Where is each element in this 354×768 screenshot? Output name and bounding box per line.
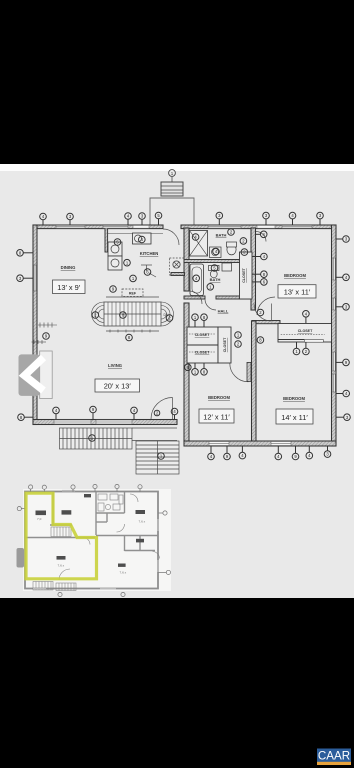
mini plan background bbox=[23, 489, 171, 591]
svg-text:BEDROOM: BEDROOM bbox=[283, 396, 305, 401]
window left wall (dining) bbox=[34, 265, 37, 291]
svg-text:13′ x 11′: 13′ x 11′ bbox=[284, 288, 311, 297]
outer wall bottom (bedrooms) bbox=[184, 441, 336, 446]
dimension box 20x13 bbox=[95, 379, 140, 392]
mini plan highlight outline bbox=[26, 493, 97, 579]
dimension box 12x11 bbox=[199, 409, 234, 423]
outer wall top-right block bbox=[181, 225, 336, 229]
radiator ticks left bbox=[32, 323, 58, 345]
svg-text:13′ x 9′: 13′ x 9′ bbox=[57, 283, 81, 292]
tub lower bath bbox=[190, 264, 204, 296]
water heater dashed box bbox=[170, 258, 185, 275]
nav chevron button bbox=[19, 354, 40, 396]
sink lower bath bbox=[222, 263, 232, 271]
svg-text:14′ x 11′: 14′ x 11′ bbox=[281, 413, 308, 422]
dimension markers left col bbox=[17, 250, 50, 421]
dimension box 13x9 bbox=[53, 280, 86, 294]
dimension markers interior kitchen bbox=[110, 236, 151, 292]
mini plan markers bbox=[17, 484, 170, 596]
bath toilet upper bbox=[210, 247, 222, 258]
chimney chase outline bbox=[150, 198, 194, 225]
wall hall/bedroom3 bbox=[252, 321, 280, 324]
dimension markers right col bbox=[336, 236, 350, 421]
svg-text:HALL: HALL bbox=[218, 309, 229, 314]
wall jog kitchen southeast bbox=[171, 273, 185, 276]
marker 1 (chimney) bbox=[169, 170, 176, 177]
mini plan interior walls bbox=[25, 492, 158, 552]
wall bath south bbox=[184, 296, 205, 299]
outer wall right bbox=[332, 225, 337, 446]
kitchen counter band along top wall bbox=[108, 233, 163, 235]
svg-text:CAAR: CAAR bbox=[318, 750, 350, 763]
dimension box 13x11 bbox=[278, 285, 316, 298]
kitchen counter + sink bbox=[108, 242, 122, 270]
outer wall bottom (living) bbox=[33, 420, 177, 425]
svg-text:7,0: 7,0 bbox=[37, 517, 42, 521]
svg-text:7,6 x: 7,6 x bbox=[120, 571, 127, 575]
door arc front entry bbox=[151, 398, 173, 420]
door arc bedroom1 bbox=[230, 363, 249, 382]
svg-text:KITCHEN: KITCHEN bbox=[140, 251, 159, 256]
windows top wall bbox=[56, 225, 312, 228]
white strip top of photo bbox=[0, 164, 354, 171]
windows right wall bbox=[332, 258, 335, 392]
svg-text:20′ x 13′: 20′ x 13′ bbox=[104, 382, 132, 391]
svg-text:BEDROOM: BEDROOM bbox=[284, 273, 306, 278]
photo area bbox=[0, 164, 354, 598]
dimension markers bottom living row bbox=[53, 406, 178, 419]
windows bottom living wall bbox=[54, 420, 132, 424]
mini plan dim texts bbox=[37, 517, 146, 575]
dimension markers top row bbox=[40, 212, 324, 225]
kitchen table symbol bbox=[141, 265, 156, 277]
door arc hall/living bbox=[189, 291, 202, 304]
mini plan bottom stairs bbox=[33, 582, 76, 591]
door arc bedroom3 bbox=[254, 304, 272, 322]
wall bath middle bbox=[184, 260, 246, 263]
dimension box 14x11 bbox=[276, 409, 313, 424]
mini plan stoop left bbox=[17, 548, 25, 568]
mini plan window ticks bbox=[33, 491, 158, 589]
svg-text:CLOSET: CLOSET bbox=[195, 351, 210, 355]
door arc bedroom2 entry bbox=[256, 232, 266, 242]
svg-text:LIVING: LIVING bbox=[108, 363, 122, 368]
windows bottom bedroom wall bbox=[209, 442, 291, 446]
svg-text:7,6 x: 7,6 x bbox=[58, 564, 65, 568]
closet block bedroom1 bbox=[187, 327, 231, 363]
svg-text:CLOSET: CLOSET bbox=[195, 333, 210, 337]
svg-text:CLOSET: CLOSET bbox=[242, 267, 246, 282]
outer wall top-left block bbox=[33, 225, 163, 229]
interior wall living/bedroom block lower bbox=[184, 303, 189, 441]
nav chevron bbox=[25, 358, 44, 391]
central stair bbox=[92, 297, 174, 333]
chimney C1 bbox=[161, 177, 183, 196]
dimension markers closets bbox=[185, 309, 310, 375]
svg-text:CLOSET: CLOSET bbox=[223, 337, 227, 352]
dimension markers bath area bbox=[192, 229, 267, 290]
stove bbox=[133, 233, 152, 244]
svg-text:REF: REF bbox=[129, 292, 137, 296]
svg-text:7,6 x: 7,6 x bbox=[139, 520, 146, 524]
toilet lower bath bbox=[209, 266, 220, 278]
svg-text:BEDROOM: BEDROOM bbox=[208, 395, 230, 400]
closet bedroom2 bbox=[240, 252, 253, 299]
bath sink upper bbox=[227, 242, 237, 255]
refrigerator REF bbox=[122, 289, 143, 297]
wall dining/kitchen bbox=[105, 228, 108, 252]
mini plan door arcs bbox=[59, 494, 160, 580]
bath shower bbox=[190, 231, 208, 257]
wall bedroom1/bedroom3 bbox=[252, 321, 257, 441]
mini plan bath fixtures cluster bbox=[98, 494, 123, 511]
door arc bedroom2 bbox=[257, 297, 275, 315]
svg-text:12′ x 11′: 12′ x 11′ bbox=[203, 412, 230, 421]
svg-text:BATH: BATH bbox=[216, 233, 227, 238]
front entry stair bbox=[60, 428, 178, 449]
svg-text:CLOSET: CLOSET bbox=[298, 329, 313, 333]
dimension markers stairs bbox=[89, 312, 173, 460]
basement stair bbox=[136, 441, 179, 474]
mini plan room labels bbox=[36, 494, 146, 567]
CAAR logo bbox=[317, 749, 351, 766]
fireplace living bbox=[40, 351, 53, 399]
door arc kitchen top bbox=[163, 229, 179, 245]
outer wall left bbox=[33, 225, 37, 425]
svg-text:DINING: DINING bbox=[61, 265, 76, 270]
mini plan stair bbox=[51, 527, 71, 537]
mini plan outer walls bbox=[25, 492, 158, 589]
wall bath/bedroom2 bbox=[251, 228, 256, 310]
closet bedroom3 bbox=[278, 324, 332, 343]
interior wall living/bedroom block upper bbox=[184, 228, 189, 291]
dimension markers bottom bedroom row bbox=[208, 446, 331, 460]
